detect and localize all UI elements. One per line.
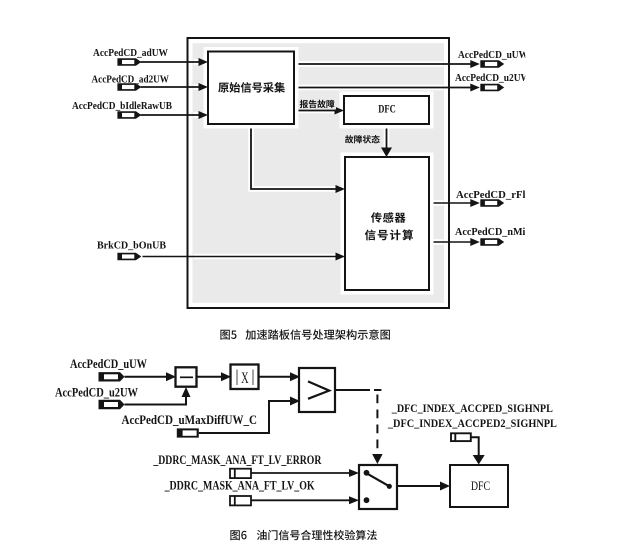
wire subtract to abs block bbox=[196, 376, 221, 378]
arrowhead up into subtract block bottom bbox=[182, 387, 191, 397]
outer boundary box of figure 5 architecture bbox=[188, 38, 450, 308]
svg-text:_DFC_INDEX_ACCPED_SIGHNPL: _DFC_INDEX_ACCPED_SIGHNPL bbox=[391, 401, 553, 415]
wire fault-status from DFC down to sensor-calc block bbox=[384, 124, 390, 155]
arrowhead switch output into DFC bbox=[440, 482, 450, 491]
svg-text:AccPedCD_bIdleRawUB: AccPedCD_bIdleRawUB bbox=[72, 100, 173, 112]
constant tag AccPedCD_uMaxDiffUW_C bbox=[122, 412, 258, 437]
svg-text:AccPedCD_u2UW: AccPedCD_u2UW bbox=[455, 72, 530, 84]
output port AccPedCD_rFlt bbox=[456, 189, 529, 207]
block raw signal acquisition 原始信号采集 bbox=[204, 47, 299, 129]
svg-text:AccPedCD_rFlt: AccPedCD_rFlt bbox=[456, 189, 529, 201]
wire output AccPedCD_u2UW from raw-signal block bbox=[294, 85, 471, 91]
wire AccPedCD_uMaxDiffUW_C to comparator lower input bbox=[199, 401, 290, 433]
wire comparator output solid segment bbox=[335, 389, 370, 391]
arrowhead ERROR into switch bbox=[349, 469, 359, 477]
input port AccPedCD_bIdleRawUB bbox=[72, 100, 173, 119]
dashed wire from comparator to switch bbox=[374, 390, 381, 455]
input port AccPedCD_uUW (figure 6) bbox=[70, 356, 147, 382]
tag _DDRC_MASK_ANA_FT_LV_ERROR bbox=[153, 453, 323, 478]
label fault status 故障状态 bbox=[343, 135, 381, 145]
input port AccPedCD_u2UW (figure 6) bbox=[55, 384, 138, 409]
label report fault 报告故障 bbox=[298, 100, 336, 110]
arrowhead into raw-signal block input 3 bbox=[199, 111, 209, 119]
wire abs block to comparator bbox=[258, 376, 290, 378]
svg-text:BrkCD_bOnUB: BrkCD_bOnUB bbox=[97, 239, 167, 251]
arrowhead into comparator upper input bbox=[290, 372, 300, 381]
svg-text:AccPedCD_uUW: AccPedCD_uUW bbox=[458, 49, 528, 61]
arrowhead into abs block bbox=[221, 372, 231, 381]
arrowhead BrkCD into sensor-calc block bbox=[336, 253, 346, 261]
output port AccPedCD_u2UW bbox=[455, 72, 530, 91]
input port AccPedCD_ad2UW bbox=[92, 73, 170, 90]
svg-text:_DDRC_MASK_ANA_FT_LV_ERROR: _DDRC_MASK_ANA_FT_LV_ERROR bbox=[153, 453, 323, 467]
input port AccPedCD_adUW bbox=[93, 47, 168, 65]
wire report-fault from raw-signal block to DFC bbox=[294, 108, 342, 114]
label _DFC_INDEX_ACCPED_SIGHNPL bbox=[391, 401, 553, 415]
wire output AccPedCD_rFlt from sensor-calc block bbox=[429, 200, 471, 206]
arrowhead DFC index into DFC top bbox=[473, 455, 485, 465]
block DFC (figure 5) bbox=[340, 92, 434, 129]
wire AccPedCD_u2UW up into subtract block bbox=[125, 396, 187, 405]
block DFC (figure 6) bbox=[450, 465, 508, 507]
svg-text:AccPedCD_adUW: AccPedCD_adUW bbox=[93, 47, 168, 59]
arrowhead OK into switch bbox=[349, 496, 359, 504]
input port BrkCD_bOnUB bbox=[97, 239, 167, 260]
wire input AccPedCD_adUW to raw-signal block bbox=[141, 59, 207, 65]
wire switch output to DFC bbox=[397, 485, 440, 487]
abs block |X| bbox=[231, 365, 259, 390]
arrowhead into raw-signal block input 1 bbox=[199, 58, 209, 66]
wire input AccPedCD_ad2UW to raw-signal block bbox=[141, 84, 207, 90]
caption figure 5 bbox=[220, 329, 390, 340]
output port AccPedCD_nMin bbox=[455, 226, 531, 246]
wire raw-signal block down and right into sensor-calc block bbox=[251, 124, 343, 189]
svg-text:_DDRC_MASK_ANA_FT_LV_OK: _DDRC_MASK_ANA_FT_LV_OK bbox=[164, 478, 315, 492]
tag _DDRC_MASK_ANA_FT_LV_OK bbox=[164, 478, 315, 505]
svg-text:AccPedCD_ad2UW: AccPedCD_ad2UW bbox=[92, 73, 170, 85]
svg-text:DFC: DFC bbox=[378, 104, 396, 116]
wire output AccPedCD_nMin from sensor-calc block bbox=[429, 239, 471, 245]
block sensor signal calculation 传感器信号计算 bbox=[341, 153, 434, 295]
arrowhead into raw-signal block input 2 bbox=[199, 83, 209, 91]
svg-text:AccPedCD_uUW: AccPedCD_uUW bbox=[70, 356, 147, 371]
svg-text:DFC: DFC bbox=[471, 479, 490, 493]
arrowhead dashed wire into switch top bbox=[372, 454, 383, 464]
svg-text:AccPedCD_nMin: AccPedCD_nMin bbox=[455, 226, 531, 238]
svg-text:AccPedCD_uMaxDiffUW_C: AccPedCD_uMaxDiffUW_C bbox=[122, 412, 258, 427]
wire output AccPedCD_uUW from raw-signal block bbox=[294, 61, 471, 67]
arrowhead fault-status into sensor-calc block bbox=[381, 148, 392, 158]
tag _DFC_INDEX constant bbox=[451, 433, 471, 441]
arrowhead into subtract block bbox=[166, 372, 176, 381]
wire _DDRC_MASK_ANA_FT_LV_ERROR into switch bbox=[251, 472, 349, 474]
arrowhead into DFC block bbox=[335, 107, 345, 115]
svg-text:X: X bbox=[241, 370, 249, 387]
svg-text:AccPedCD_u2UW: AccPedCD_u2UW bbox=[55, 384, 138, 399]
arrowhead into comparator lower input bbox=[290, 397, 300, 406]
switch block bbox=[359, 465, 397, 509]
arrowhead internal into sensor-calc block bbox=[336, 185, 346, 193]
wire input AccPedCD_bIdleRawUB to raw-signal block bbox=[141, 112, 207, 118]
wire DFC index tag down into DFC top bbox=[471, 437, 479, 456]
output port AccPedCD_uUW bbox=[458, 49, 528, 68]
caption figure 6 bbox=[230, 530, 376, 540]
label _DFC_INDEX_ACCPED2_SIGHNPL bbox=[387, 416, 557, 430]
comparator block > bbox=[299, 368, 335, 412]
wire input BrkCD_bOnUB to sensor-calc block bbox=[143, 254, 344, 260]
wire _DDRC_MASK_ANA_FT_LV_OK into switch bbox=[251, 499, 349, 501]
subtract block (minus) bbox=[176, 367, 197, 386]
wire AccPedCD_uUW into subtract block bbox=[125, 376, 167, 378]
svg-text:_DFC_INDEX_ACCPED2_SIGHNPL: _DFC_INDEX_ACCPED2_SIGHNPL bbox=[387, 416, 557, 430]
